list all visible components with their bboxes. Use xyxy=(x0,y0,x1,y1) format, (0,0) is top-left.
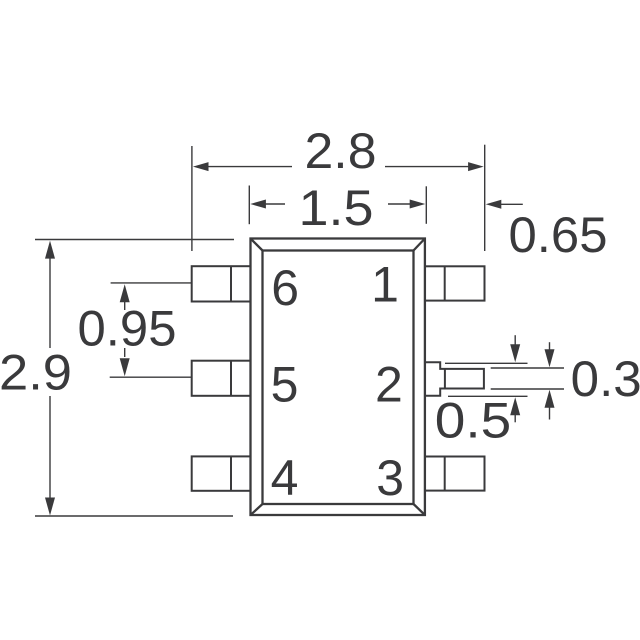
pin 1 lead xyxy=(425,266,485,300)
pin 4 lead foot line xyxy=(230,456,232,490)
pin 3 lead foot line xyxy=(444,457,446,491)
dim 0.3 extension line top xyxy=(491,367,564,369)
svg-text:2.9: 2.9 xyxy=(0,345,72,401)
svg-text:1.5: 1.5 xyxy=(299,180,374,236)
dim 2.8 line right segment xyxy=(385,166,470,168)
pin 6 lead xyxy=(192,266,251,301)
dim 0.95 arrow top xyxy=(120,284,130,302)
bevel bottom-left xyxy=(251,504,263,515)
svg-text:0.5: 0.5 xyxy=(435,393,512,449)
dim 1.5 line left segment xyxy=(263,203,285,205)
dim 0.5 extension line bottom xyxy=(448,395,528,397)
dim 0.5 arrow top xyxy=(510,344,520,362)
bevel top-right xyxy=(414,239,425,251)
dim 0.95 extension line bottom xyxy=(110,376,192,378)
svg-text:1: 1 xyxy=(371,257,399,313)
svg-text:2.8: 2.8 xyxy=(305,123,377,179)
dim 1.5 arrow left xyxy=(250,200,266,209)
dim 0.95 extension line top xyxy=(111,282,192,284)
svg-text:0.95: 0.95 xyxy=(78,300,177,356)
dim 2.9 extension line top xyxy=(35,239,234,241)
dim 0.3 arrow top xyxy=(545,349,555,367)
dim 2.9 extension line bottom xyxy=(35,515,233,517)
dim 0.3 arrow top tail xyxy=(549,342,551,355)
svg-text:3: 3 xyxy=(376,450,404,506)
dim 2.9 line lower segment xyxy=(49,396,51,499)
dim 0.3 extension line bottom xyxy=(491,388,564,390)
dim 0.95 line lower segment xyxy=(124,348,126,357)
dim 0.95 arrow bottom xyxy=(120,358,130,376)
dim 2.8 extension line right xyxy=(484,145,486,251)
dim 0.65 arrow outside right xyxy=(486,200,502,209)
dim 1.5 extension line right xyxy=(425,186,427,224)
dim 0.3 arrow bottom tail xyxy=(549,404,551,420)
svg-text:0.65: 0.65 xyxy=(509,207,608,263)
pin 6 lead foot line xyxy=(230,266,232,301)
dim 0.95 line upper segment xyxy=(124,302,126,310)
dim 0.5 arrow bottom xyxy=(510,397,520,415)
dim 0.5 arrow top tail xyxy=(514,335,516,349)
dim 2.8 extension line left xyxy=(191,146,193,251)
pin 1 lead foot line xyxy=(444,266,446,300)
dim 2.8 line left segment xyxy=(206,166,292,168)
pin 3 lead xyxy=(425,457,485,491)
dim 0.65 arrow tail xyxy=(500,203,523,205)
dim 1.5 arrow right xyxy=(410,200,426,209)
svg-text:2: 2 xyxy=(375,356,403,412)
bevel bottom-right xyxy=(414,504,425,515)
pin 2 lead foot line xyxy=(444,369,446,389)
dim 2.9 arrow top xyxy=(45,241,55,259)
dim 0.5 extension line top xyxy=(445,362,528,364)
dim 2.9 line upper segment xyxy=(49,258,51,348)
bevel top-left xyxy=(251,239,263,251)
dim 1.5 extension line left xyxy=(248,186,250,225)
svg-text:5: 5 xyxy=(271,356,299,412)
dim 0.3 arrow bottom xyxy=(545,390,555,408)
dim 0.5 arrow bottom tail xyxy=(514,410,516,422)
pin 5 lead xyxy=(192,361,251,396)
svg-text:0.3: 0.3 xyxy=(571,351,640,407)
pin 2 lead wide stub xyxy=(425,362,484,396)
pin 5 lead foot line xyxy=(230,361,232,396)
svg-text:4: 4 xyxy=(271,450,299,506)
package body outer outline xyxy=(251,239,425,516)
pin 4 lead xyxy=(192,456,251,490)
svg-text:6: 6 xyxy=(271,260,299,316)
dim 2.8 arrow right xyxy=(468,162,484,171)
dim 2.8 arrow left xyxy=(193,162,209,171)
dim 1.5 line right segment xyxy=(388,203,412,205)
dim 2.9 arrow bottom xyxy=(45,498,55,516)
package body inner outline xyxy=(263,251,414,505)
